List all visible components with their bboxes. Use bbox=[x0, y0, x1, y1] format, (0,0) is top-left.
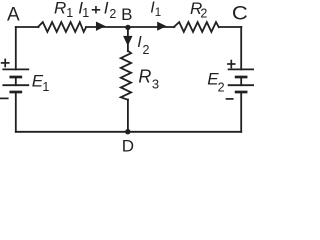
E1 minus sign bbox=[0, 97, 9, 99]
svg-text:R: R bbox=[54, 0, 66, 18]
E1 plus sign bbox=[1, 59, 10, 68]
current arrow I1+I2 (right, on A-B wire) bbox=[96, 22, 104, 30]
battery E1 short plate top bbox=[11, 76, 21, 79]
E2 plus sign bbox=[227, 60, 235, 69]
svg-text:1: 1 bbox=[66, 6, 73, 20]
svg-text:A: A bbox=[7, 5, 20, 26]
E2 minus sign bbox=[226, 98, 234, 100]
svg-text:1: 1 bbox=[42, 80, 49, 94]
battery E1 inner stub bbox=[15, 77, 17, 85]
battery E1 short plate bottom bbox=[11, 91, 21, 94]
wire R3 to node D bbox=[127, 100, 129, 132]
wire R2 to C corner bbox=[219, 26, 241, 28]
current arrow I2 (down, on B-D branch) bbox=[124, 36, 132, 45]
wire bottom (D rail) bbox=[16, 131, 241, 133]
svg-text:R: R bbox=[138, 66, 151, 86]
battery E2 long plate top bbox=[229, 68, 254, 70]
battery E1 long plate bottom bbox=[3, 84, 28, 86]
svg-text:2: 2 bbox=[109, 7, 116, 21]
node B junction dot bbox=[125, 25, 130, 30]
svg-text:I: I bbox=[137, 34, 142, 51]
wire left vertical top (A to E1) bbox=[15, 27, 17, 69]
svg-text:2: 2 bbox=[200, 7, 207, 21]
svg-text:2: 2 bbox=[218, 81, 225, 95]
svg-text:D: D bbox=[122, 137, 134, 152]
battery E2 long plate bottom bbox=[229, 84, 254, 86]
resistor R3 bbox=[121, 51, 131, 100]
wire top left (A to R1) bbox=[16, 26, 39, 28]
wire right vertical bottom (E2 to corner) bbox=[240, 92, 242, 132]
wire right vertical top (C to E2) bbox=[240, 27, 242, 69]
svg-text:2: 2 bbox=[143, 43, 150, 57]
wire node B to R2 bbox=[128, 26, 174, 28]
wire left vertical bottom (E1 to corner) bbox=[15, 92, 17, 132]
battery E2 short plate bottom bbox=[236, 91, 246, 94]
svg-text:C: C bbox=[232, 3, 248, 24]
wire node B down to R3 bbox=[127, 27, 129, 51]
battery E2 short plate top bbox=[236, 76, 246, 79]
battery E2 inner stub bbox=[240, 77, 242, 85]
resistor R1 bbox=[38, 22, 86, 32]
svg-text:B: B bbox=[121, 5, 132, 24]
current arrow I1 (right, on B-C wire) bbox=[158, 22, 166, 30]
battery E1 long plate top bbox=[3, 68, 28, 70]
resistor R2 bbox=[174, 22, 219, 32]
svg-text:1: 1 bbox=[155, 7, 161, 19]
svg-text:I: I bbox=[104, 0, 109, 18]
wire R1 to node B bbox=[86, 26, 128, 28]
svg-text:1: 1 bbox=[82, 6, 89, 20]
svg-text:3: 3 bbox=[152, 76, 159, 91]
node D junction dot bbox=[125, 129, 130, 134]
